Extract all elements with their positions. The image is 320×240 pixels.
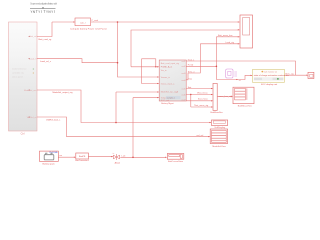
svg-text:rate_l: rate_l — [80, 21, 86, 24]
svg-text:Vm_in: Vm_in — [161, 70, 168, 72]
svg-text:Vbat_meas: Vbat_meas — [197, 92, 208, 95]
U4 outside signal labels — [188, 59, 196, 90]
svg-text:batt monitor on: batt monitor on — [264, 71, 277, 74]
svg-text:P_cmd: P_cmd — [92, 20, 99, 22]
dashboard panel U7 — [253, 69, 289, 82]
wire into dashboard U7 — [216, 75, 252, 79]
wire node N3 up to scope U3 input 2 — [131, 30, 240, 67]
scope block U3 — [240, 15, 253, 48]
junction node N6 — [190, 94, 191, 95]
svg-text:SimPS: SimPS — [79, 156, 86, 158]
wire U4.Pcmd to node N5 — [186, 65, 216, 67]
wire U2 output to scope U3 input 1 — [91, 21, 240, 23]
svg-text:ModeSel_out: ModeSel_out — [24, 89, 37, 92]
svg-text:meas_bus_sig: meas_bus_sig — [218, 96, 232, 98]
svg-text:Batt_cmd_sg: Batt_cmd_sg — [39, 38, 53, 41]
svg-text:BattMeasBus: BattMeasBus — [210, 111, 222, 114]
display block U13 — [167, 154, 184, 160]
arrowhead into display U11 — [208, 136, 210, 137]
wire into scope U3 input 4 — [200, 43, 239, 45]
dashboard record block U5 — [226, 69, 237, 78]
svg-text:Sequence and configuration of: Sequence and configuration of battery mo… — [30, 2, 58, 5]
svg-text:Vout_s: Vout_s — [188, 59, 194, 62]
wire loop drop x141.5 — [141, 59, 143, 84]
display block U6 — [233, 87, 254, 104]
U1 output port arrows — [28, 36, 29, 118]
wire U1.ModeSel_out to display U10 — [37, 90, 211, 123]
wire U4.Vout to scope U8 — [186, 61, 295, 75]
svg-text:Pcmd: Pcmd — [188, 65, 194, 67]
wire U4 port8 riser x200.3 — [186, 44, 200, 80]
svg-text:model reference: model reference — [12, 69, 27, 71]
wire ammeter A1 to display U13 — [120, 156, 166, 158]
U1 interior status dots — [33, 68, 34, 73]
svg-text:Tbat_meas_sig: Tbat_meas_sig — [194, 104, 209, 107]
junction node on U4 port2 wire — [155, 66, 156, 67]
wire loop riser x155.8 — [155, 59, 157, 67]
svg-text:VoltRef_batt_s: VoltRef_batt_s — [46, 118, 61, 121]
wire into U4 port 4 — [142, 83, 159, 85]
svg-text:Load_sig: Load_sig — [226, 42, 235, 44]
svg-text:Vmeas_in: Vmeas_in — [161, 77, 171, 79]
wire node N6 drop to mux input 4 — [190, 95, 192, 108]
hierarchy tree horizontal bar — [30, 7, 56, 9]
subsystem U4 battery management — [159, 60, 186, 101]
arrowheads into dashboard U7 — [236, 75, 252, 80]
svg-text:sample_t: sample_t — [167, 97, 176, 100]
wire U4.out7 to mux U9 input 3 — [186, 100, 212, 102]
svg-text:SOC_init: SOC_init — [161, 99, 170, 102]
svg-text:Amp1: Amp1 — [115, 161, 121, 164]
svg-text:controller cfg: controller cfg — [12, 72, 23, 75]
svg-text:Ctrl: Ctrl — [21, 133, 25, 136]
wire into U4 port 6 — [133, 97, 159, 99]
arrowhead into scope U8 — [306, 75, 308, 76]
U1 output port labels — [24, 35, 37, 119]
ammeter A1 — [113, 154, 119, 160]
svg-text:Battery Mgmt: Battery Mgmt — [161, 102, 174, 105]
svg-text:BattMeasView: BattMeasView — [238, 105, 252, 108]
svg-text:md_sel: md_sel — [197, 135, 204, 137]
junction node N4 — [115, 122, 117, 124]
wire into scope U3 input 3 — [216, 36, 239, 38]
svg-text:Batt_meas_bus: Batt_meas_bus — [218, 34, 232, 37]
wire node N4 riser to U4 port 5 — [115, 92, 117, 123]
svg-text:BattCurrentView: BattCurrentView — [168, 160, 184, 163]
svg-text:Battery pack: Battery pack — [43, 162, 56, 165]
arrowheads into mux U9 — [211, 88, 213, 108]
svg-text:Load_ref_s: Load_ref_s — [40, 60, 52, 63]
battery B1 — [40, 151, 59, 161]
junction node N5 — [216, 66, 218, 68]
wire bus riser x216.4 — [215, 37, 217, 80]
display block U10 — [211, 120, 227, 125]
wire dashboard U7 output to scope U8 — [284, 74, 306, 76]
svg-text:status panel: status panel — [12, 76, 23, 79]
svg-text:SOC_e: SOC_e — [188, 72, 196, 74]
U1 interior annotation text — [12, 69, 27, 79]
svg-text:state of charge estimation run: state of charge estimation runtime sim — [254, 74, 289, 77]
arrowhead into display U6 — [231, 96, 233, 97]
arrowhead into display U13 — [165, 157, 167, 158]
svg-text:12v100Ah: 12v100Ah — [49, 151, 58, 154]
converter block U12 — [76, 153, 89, 159]
svg-text:SimConverter1: SimConverter1 — [75, 159, 90, 162]
junction node on battery wire — [132, 157, 134, 159]
wire battery sense riser x133 — [132, 98, 134, 158]
wire node N1 down to U4 port 3 — [118, 22, 159, 77]
svg-text:Ibat_meas: Ibat_meas — [198, 98, 208, 101]
arrowheads into subsystem U4 — [157, 66, 159, 98]
wire battery B1 to converter U12 — [58, 156, 75, 158]
wire U1.Batt_cd to U2 rate limiter — [37, 22, 52, 37]
arrowhead into display U10 — [209, 122, 211, 123]
svg-text:Ibat: Ibat — [188, 86, 192, 89]
wire U4.out5 to mux U9 input 1 — [186, 88, 212, 90]
svg-text:Batt_cmd_input_sig: Batt_cmd_input_sig — [161, 62, 180, 65]
hierarchy tree leaf glyphs — [31, 10, 55, 13]
junction node N2 — [117, 62, 119, 64]
svg-text:ModeSelView: ModeSelView — [212, 146, 226, 148]
wire converter U12 to ammeter A1 — [88, 156, 113, 158]
arrowhead into converter U12 — [74, 157, 76, 158]
bus creator U9 — [213, 83, 217, 110]
svg-text:Batt_cd: Batt_cd — [29, 35, 37, 38]
arrowheads into scope U3 — [238, 21, 240, 44]
wire loop top x141.5-155.8 — [142, 58, 156, 60]
svg-text:Load_rf: Load_rf — [29, 57, 36, 60]
svg-text:SOC_sig: SOC_sig — [285, 74, 294, 76]
svg-text:ModeSel_output_sig: ModeSel_output_sig — [53, 91, 74, 94]
arrowhead into ammeter A1 — [111, 156, 113, 157]
junction node N1 — [117, 21, 119, 23]
wire mux U9 output to display U6 — [217, 95, 232, 97]
svg-text:SOC display unit: SOC display unit — [261, 83, 278, 86]
U4 sample-time highlight — [166, 96, 181, 99]
wire U1.VoltRef_ot to display U11 — [37, 117, 210, 137]
wire into U4 port 2 — [131, 66, 159, 68]
U4 input port labels — [161, 62, 180, 102]
svg-text:Imeas_input_a: Imeas_input_a — [161, 82, 175, 85]
scope block U8 — [308, 72, 314, 78]
svg-text:ModeSel_inp_sigA: ModeSel_inp_sigA — [161, 91, 179, 94]
wire U1.Load_rf jog to node N2 — [37, 59, 118, 63]
svg-text:PCMD_A_in: PCMD_A_in — [161, 65, 173, 68]
svg-text:VoltRef_ot: VoltRef_ot — [27, 116, 37, 119]
subsystem U1 controller — [9, 22, 38, 131]
svg-text:Compute battery Power Cmd Fact: Compute battery Power Cmd Factor — [70, 28, 107, 31]
U4 output port labels — [182, 60, 187, 102]
display block U11 — [210, 129, 227, 144]
rate limiter block U2 — [73, 18, 90, 26]
wire U4.out6 to mux U9 input 2 — [186, 94, 213, 96]
wire into mux U9 input 4 — [191, 106, 213, 108]
